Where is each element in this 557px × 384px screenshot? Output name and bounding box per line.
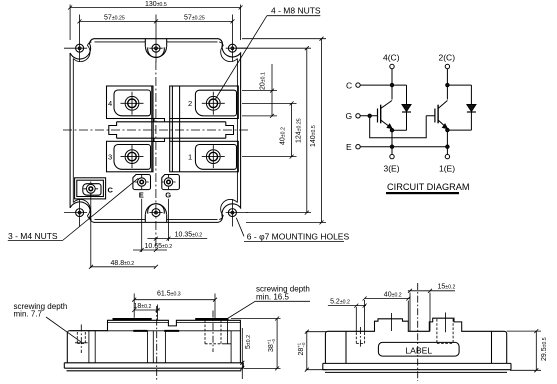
svg-text:15±0.2: 15±0.2: [438, 284, 456, 291]
svg-text:min. 7.7: min. 7.7: [14, 310, 43, 319]
svg-text:57±0.25: 57±0.25: [184, 15, 205, 22]
svg-text:40±0.2: 40±0.2: [280, 127, 287, 145]
svg-text:130±0.5: 130±0.5: [145, 1, 167, 8]
svg-text:min. 16.5: min. 16.5: [256, 293, 289, 302]
svg-text:C: C: [346, 81, 352, 91]
svg-text:3(E): 3(E): [384, 164, 400, 174]
svg-text:3: 3: [108, 153, 112, 162]
svg-text:29.5±0.5: 29.5±0.5: [541, 337, 548, 361]
svg-text:28+1−0: 28+1−0: [297, 342, 307, 356]
svg-text:124±0.25: 124±0.25: [296, 118, 303, 143]
svg-text:E: E: [346, 142, 352, 152]
svg-text:10.35±0.2: 10.35±0.2: [175, 232, 203, 239]
svg-text:5±0.2: 5±0.2: [245, 335, 252, 349]
svg-text:1(E): 1(E): [439, 164, 455, 174]
svg-text:40±0.2: 40±0.2: [384, 292, 402, 299]
svg-text:G: G: [165, 191, 171, 200]
svg-text:10.65±0.2: 10.65±0.2: [145, 243, 173, 250]
svg-text:2: 2: [188, 99, 192, 108]
svg-text:4 - M8 NUTS: 4 - M8 NUTS: [271, 6, 321, 16]
svg-text:3 - M4 NUTS: 3 - M4 NUTS: [8, 231, 58, 241]
svg-text:61.5±0.3: 61.5±0.3: [157, 290, 181, 297]
svg-text:57±0.25: 57±0.25: [104, 15, 125, 22]
svg-text:5.2±0.2: 5.2±0.2: [330, 299, 350, 306]
svg-text:6 - φ7 MOUNTING HOLES: 6 - φ7 MOUNTING HOLES: [247, 232, 350, 242]
svg-text:38+1−0: 38+1−0: [266, 338, 276, 352]
svg-text:18±0.2: 18±0.2: [134, 303, 152, 310]
svg-text:20±0.1: 20±0.1: [260, 72, 267, 90]
svg-text:4: 4: [108, 99, 112, 108]
svg-text:E: E: [139, 191, 144, 200]
svg-text:CIRCUIT DIAGRAM: CIRCUIT DIAGRAM: [387, 182, 470, 192]
svg-text:C: C: [108, 186, 114, 195]
svg-text:LABEL: LABEL: [405, 346, 432, 356]
svg-text:140±0.5: 140±0.5: [310, 125, 317, 147]
svg-text:2(C): 2(C): [439, 53, 456, 63]
svg-text:4(C): 4(C): [383, 53, 400, 63]
svg-text:48.8±0.2: 48.8±0.2: [111, 260, 135, 267]
svg-text:1: 1: [188, 153, 192, 162]
svg-text:G: G: [346, 111, 353, 121]
